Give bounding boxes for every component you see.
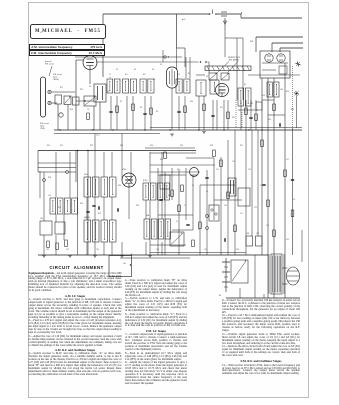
svg-text:R30: R30 <box>80 203 83 205</box>
svg-text:C5: C5 <box>192 185 194 187</box>
svg-text:IF3: IF3 <box>177 74 180 76</box>
svg-text:R20: R20 <box>47 145 50 147</box>
svg-text:C9: C9 <box>206 191 208 193</box>
svg-text:R32: R32 <box>118 185 121 187</box>
svg-text:R26: R26 <box>210 145 213 147</box>
svg-text:C11: C11 <box>216 169 219 171</box>
svg-text:R9: R9 <box>156 111 158 113</box>
svg-text:V2: V2 <box>160 64 162 66</box>
svg-text:C39: C39 <box>46 249 49 251</box>
svg-text:A.C.: A.C. <box>182 18 186 21</box>
svg-text:C23: C23 <box>260 185 263 187</box>
svg-text:R31: R31 <box>98 213 101 215</box>
svg-text:IF1: IF1 <box>125 74 128 76</box>
svg-text:C27: C27 <box>286 159 289 161</box>
svg-text:C13: C13 <box>224 205 227 207</box>
svg-text:V2A: V2A <box>122 168 126 171</box>
svg-text:R18: R18 <box>70 109 73 111</box>
svg-text:R2: R2 <box>134 69 136 71</box>
svg-text:R21: R21 <box>60 145 63 147</box>
svg-text:R34: R34 <box>160 159 163 161</box>
svg-text:R25: R25 <box>180 145 183 147</box>
svg-text:(75Ω): (75Ω) <box>40 128 45 130</box>
svg-text:C7: C7 <box>198 229 200 231</box>
svg-text:R15: R15 <box>286 91 289 93</box>
svg-text:IF2: IF2 <box>143 74 146 76</box>
svg-text:R19: R19 <box>80 89 83 91</box>
svg-text:V3A: V3A <box>146 214 150 217</box>
svg-text:R17: R17 <box>60 87 63 89</box>
svg-text:C31: C31 <box>286 239 289 241</box>
svg-text:C41: C41 <box>204 249 207 251</box>
svg-text:C21: C21 <box>254 207 257 209</box>
svg-text:R3: R3 <box>152 69 154 71</box>
svg-text:C3: C3 <box>87 109 89 111</box>
svg-text:R14: R14 <box>262 95 265 97</box>
svg-text:F.M. aerial: F.M. aerial <box>45 63 54 66</box>
svg-text:A.M. AERIAL: A.M. AERIAL <box>229 59 240 62</box>
svg-text:L4: L4 <box>107 91 109 93</box>
svg-text:R5: R5 <box>206 76 208 78</box>
svg-text:(F.M.): (F.M.) <box>143 180 148 182</box>
svg-text:R8: R8 <box>140 107 142 109</box>
svg-text:C15: C15 <box>232 161 235 163</box>
svg-text:R2: R2 <box>89 86 91 88</box>
svg-text:R27: R27 <box>240 145 243 147</box>
svg-text:R12: R12 <box>232 117 235 119</box>
svg-text:C48: C48 <box>246 233 249 235</box>
svg-text:C1: C1 <box>176 221 178 223</box>
svg-text:T1: T1 <box>109 74 111 76</box>
svg-text:C3: C3 <box>184 205 186 207</box>
svg-text:C19: C19 <box>248 169 251 171</box>
svg-text:R29: R29 <box>58 207 61 209</box>
svg-text:R10: R10 <box>190 101 193 103</box>
svg-text:V4a: V4a <box>177 169 180 171</box>
svg-text:R33: R33 <box>136 205 139 207</box>
svg-text:B1: B1 <box>219 295 221 297</box>
svg-text:C25: C25 <box>266 225 269 227</box>
svg-text:R16: R16 <box>268 119 271 121</box>
svg-text:c49: c49 <box>123 263 126 265</box>
svg-text:R35: R35 <box>168 195 171 197</box>
svg-text:R1: R1 <box>116 69 118 71</box>
svg-text:R11: R11 <box>220 107 223 109</box>
svg-text:V2: V2 <box>153 79 155 81</box>
svg-text:C37: C37 <box>66 249 69 251</box>
svg-text:R6: R6 <box>244 84 246 86</box>
svg-text:L14: L14 <box>48 195 51 197</box>
svg-text:C17: C17 <box>240 213 243 215</box>
svg-text:R33: R33 <box>250 41 253 43</box>
svg-text:C35: C35 <box>96 249 99 251</box>
svg-text:(300Ω): (300Ω) <box>53 79 59 81</box>
svg-text:R7: R7 <box>120 101 122 103</box>
svg-text:R24: R24 <box>150 145 153 147</box>
svg-text:R22: R22 <box>90 145 93 147</box>
svg-text:L46: L46 <box>280 89 283 91</box>
svg-text:Ch.1: Ch.1 <box>96 135 100 137</box>
svg-text:C29: C29 <box>292 199 295 201</box>
svg-text:C43: C43 <box>236 249 239 251</box>
svg-text:R4: R4 <box>188 73 190 75</box>
svg-text:R23: R23 <box>120 145 123 147</box>
svg-text:R13: R13 <box>250 103 253 105</box>
svg-text:C49: C49 <box>256 233 259 235</box>
svg-text:R28: R28 <box>48 177 51 179</box>
svg-text:C33: C33 <box>156 249 159 251</box>
svg-text:L46: L46 <box>40 218 43 220</box>
